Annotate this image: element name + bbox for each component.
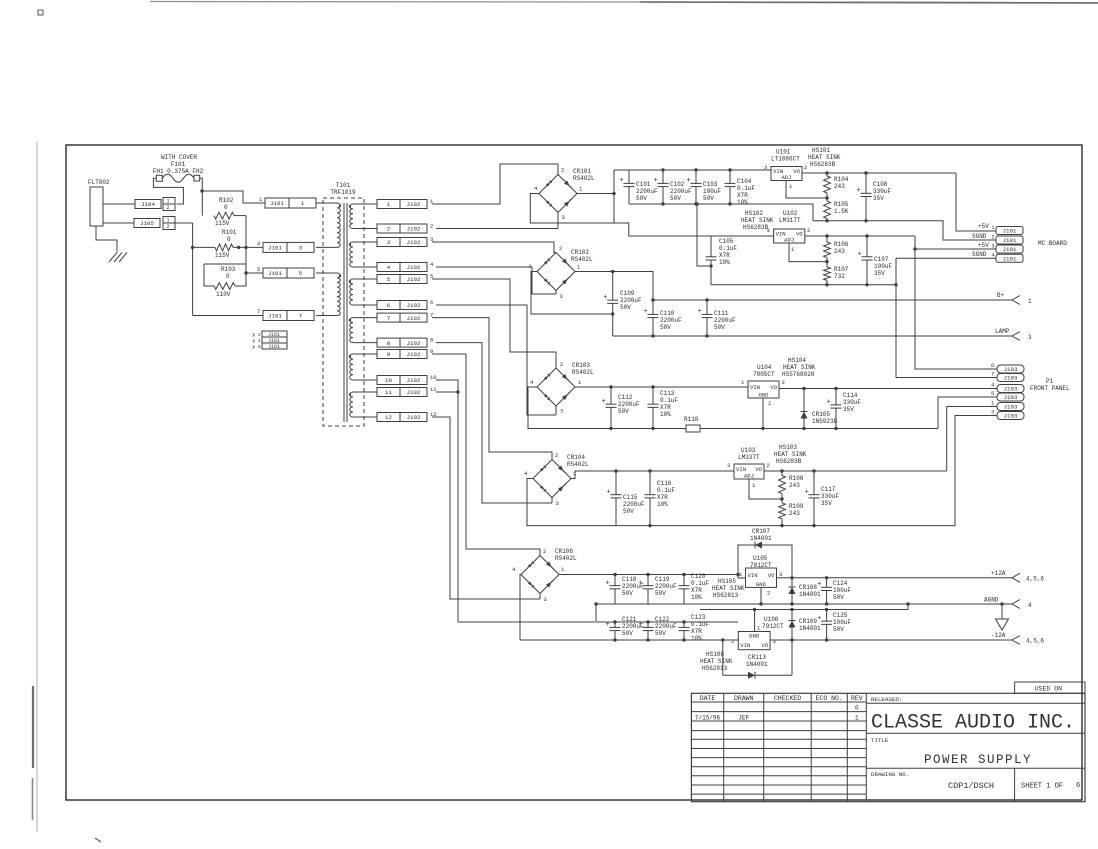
capacitor C113: [648, 387, 679, 429]
svg-text:CHECKED: CHECKED: [774, 695, 801, 702]
svg-text:R109: R109: [789, 503, 804, 510]
wire B+ rail: [651, 298, 1012, 301]
transformer T101 label: [330, 182, 356, 196]
wire J102-4 to CR102 bottom: [436, 267, 556, 294]
svg-text:J101: J101: [268, 270, 282, 277]
svg-text:FRONT PANEL: FRONT PANEL: [1030, 385, 1070, 392]
svg-text:1.5K: 1.5K: [834, 208, 849, 215]
svg-text:P1: P1: [1046, 378, 1054, 385]
svg-text:C118: C118: [622, 576, 637, 583]
svg-text:100uF: 100uF: [833, 587, 851, 594]
wire J102-1 to CR101 top: [432, 164, 558, 204]
svg-text:2: 2: [167, 205, 170, 211]
wire center tap to AGND branch: [458, 621, 595, 623]
svg-text:1: 1: [167, 199, 170, 205]
svg-text:+: +: [827, 399, 831, 407]
wire AGND rail lower: [700, 604, 908, 611]
svg-text:J103: J103: [1004, 366, 1018, 373]
connector J101 pin3: [257, 240, 314, 252]
wire U104 ground pin: [762, 398, 764, 429]
svg-text:330uF: 330uF: [821, 493, 839, 500]
svg-text:50V: 50V: [636, 195, 647, 202]
svg-text:-12A: -12A: [991, 632, 1006, 639]
svg-text:+5V: +5V: [978, 242, 989, 249]
svg-text:3: 3: [727, 462, 730, 469]
node P1 FRONT PANEL label: [1030, 378, 1070, 392]
node R101 left junction: [191, 246, 194, 249]
svg-text:2: 2: [807, 227, 810, 234]
svg-text:R105: R105: [834, 201, 849, 208]
svg-text:U106: U106: [764, 616, 779, 623]
svg-text:50V: 50V: [660, 324, 671, 331]
node output arrow 1: [997, 292, 1032, 305]
wire U103 adj: [749, 479, 784, 501]
svg-text:+: +: [606, 621, 610, 629]
connector J102 pin 8: [377, 337, 433, 348]
capacitor C120: [679, 573, 710, 604]
svg-text:VO: VO: [755, 466, 762, 473]
wire bus B to J101 pin5: [246, 272, 263, 274]
svg-text:J102: J102: [407, 340, 421, 347]
svg-text:2200uF: 2200uF: [660, 317, 682, 324]
svg-text:50V: 50V: [620, 304, 631, 311]
svg-text:VO: VO: [770, 384, 777, 391]
connector J103 pin 4: [991, 382, 1024, 393]
svg-text:C123: C123: [691, 614, 706, 621]
wire FLT802 to ground: [96, 226, 117, 252]
svg-text:5: 5: [257, 266, 260, 273]
svg-text:+5V: +5V: [978, 223, 989, 230]
wire U105 ground pin: [760, 587, 762, 604]
svg-text:2200uF: 2200uF: [714, 317, 736, 324]
svg-text:2: 2: [258, 332, 261, 338]
capacitor C124: [817, 578, 851, 604]
svg-text:RS402L: RS402L: [555, 555, 577, 562]
wire CR102 negative loop: [531, 272, 614, 316]
svg-text:AGND: AGND: [984, 597, 999, 604]
title block USED ON box: [1015, 682, 1085, 693]
wire U104 output rail: [779, 387, 997, 390]
svg-text:+: +: [654, 177, 658, 185]
capacitor C119: [639, 575, 678, 605]
svg-text:0.1uF: 0.1uF: [660, 397, 678, 404]
svg-text:R104: R104: [834, 176, 849, 183]
connector J103 pin 5: [991, 390, 1024, 401]
wire channel4 ground rail: [616, 524, 955, 527]
svg-text:11: 11: [385, 389, 392, 396]
svg-text:330uF: 330uF: [843, 399, 861, 406]
wire CR104 positive to U103: [571, 469, 734, 478]
node HS106 heat sink label: [700, 651, 733, 672]
connector J102 pin 12: [377, 411, 437, 422]
svg-text:+: +: [602, 398, 606, 406]
svg-text:8: 8: [430, 337, 433, 344]
svg-text:0.1uF: 0.1uF: [719, 245, 737, 252]
capacitor C114: [827, 389, 862, 429]
svg-text:10%: 10%: [719, 259, 730, 266]
svg-text:1N4001: 1N4001: [799, 591, 821, 598]
capacitor C105: [706, 236, 738, 285]
wire J102-3 to CR102 top: [432, 242, 556, 253]
capacitor C118: [606, 575, 645, 605]
svg-text:HEAT SINK: HEAT SINK: [741, 217, 774, 224]
svg-text:6: 6: [430, 299, 433, 306]
connector J102 pin 1: [377, 198, 434, 209]
svg-text:115V: 115V: [215, 252, 230, 259]
connector J102 pin 9: [377, 348, 433, 359]
title block DRAWING NO label: [871, 771, 909, 778]
svg-text:10%: 10%: [691, 635, 702, 642]
svg-text:+: +: [620, 177, 624, 185]
svg-text:7: 7: [387, 315, 391, 322]
svg-text:4: 4: [992, 253, 995, 259]
title block title divider: [866, 732, 1085, 734]
svg-text:50V: 50V: [714, 324, 725, 331]
svg-text:GND: GND: [758, 392, 769, 399]
wire FLT802 to J104: [103, 203, 135, 205]
svg-text:50V: 50V: [670, 195, 681, 202]
svg-text:C107: C107: [874, 256, 889, 263]
connector J101 output 2: [972, 233, 1023, 244]
wire unregulated bus vertical: [613, 170, 615, 223]
svg-text:R106: R106: [834, 241, 849, 248]
svg-text:J101: J101: [1003, 255, 1017, 262]
svg-text:X7R: X7R: [657, 494, 668, 501]
wire CR106 negative to -rail: [520, 575, 521, 641]
svg-text:J103: J103: [1004, 413, 1018, 420]
svg-text:+: +: [817, 615, 821, 623]
svg-text:J101: J101: [268, 313, 282, 320]
bridge rectifier CR104: [524, 452, 589, 507]
title block headers: [700, 695, 863, 702]
transformer primary winding 1: [316, 203, 341, 247]
svg-text:C124: C124: [833, 580, 848, 587]
svg-text:50V: 50V: [703, 195, 714, 202]
svg-text:J101: J101: [1003, 246, 1017, 253]
svg-text:J101: J101: [268, 245, 282, 252]
wire FLT802 to J105: [103, 222, 134, 224]
svg-text:1: 1: [387, 201, 391, 208]
wire U101 output rail: [802, 171, 956, 174]
svg-text:HS62813: HS62813: [702, 665, 728, 672]
wire negative rail: [520, 638, 738, 641]
svg-text:VIN: VIN: [748, 572, 758, 579]
svg-text:REV: REV: [851, 695, 863, 702]
capacitor C122: [639, 616, 678, 640]
svg-text:R110: R110: [684, 416, 699, 423]
wire J105 to J101 pin7: [193, 315, 263, 317]
svg-text:POWER SUPPLY: POWER SUPPLY: [924, 753, 1032, 767]
svg-text:CR108: CR108: [799, 584, 817, 591]
svg-text:4,5,6: 4,5,6: [1026, 638, 1044, 645]
svg-text:2200uF: 2200uF: [655, 583, 677, 590]
transformer primary winding 2: [316, 273, 341, 316]
wire J102-5 to CR103 top: [432, 279, 556, 368]
svg-text:35V: 35V: [843, 406, 854, 413]
ground earth symbol: [109, 253, 127, 263]
svg-text:U102: U102: [783, 210, 798, 217]
op-amp U103 regulator LM337T: [727, 444, 807, 489]
svg-text:X7R: X7R: [660, 404, 671, 411]
svg-text:+: +: [639, 621, 643, 629]
svg-text:J102: J102: [407, 226, 421, 233]
connector J102 pin 10: [377, 374, 437, 385]
wire CR102 positive output: [575, 270, 653, 300]
svg-text:C125: C125: [833, 612, 848, 619]
svg-text:C108: C108: [873, 181, 888, 188]
svg-text:+: +: [858, 250, 862, 258]
svg-text:CR109: CR109: [799, 618, 817, 625]
svg-text:VIN: VIN: [750, 384, 760, 391]
title block column lines: [724, 693, 867, 801]
svg-text:100uF: 100uF: [833, 619, 851, 626]
capacitor C112: [602, 387, 641, 429]
svg-text:ECO NO.: ECO NO.: [816, 695, 843, 702]
svg-text:1N4001: 1N4001: [799, 625, 821, 632]
resistor R102: [214, 197, 234, 227]
svg-text:3: 3: [764, 164, 767, 171]
svg-text:+: +: [805, 488, 809, 496]
wire J102-9 to CR106 top: [432, 354, 540, 556]
svg-text:HEAT SINK: HEAT SINK: [783, 364, 816, 371]
connector J101 output 3: [978, 242, 1023, 253]
svg-text:3: 3: [562, 214, 565, 221]
wire +5V2 to J101 and J103: [913, 236, 997, 369]
svg-text:1: 1: [167, 218, 170, 224]
svg-text:C112: C112: [618, 394, 633, 401]
svg-text:3: 3: [779, 571, 782, 578]
capacitor C115: [607, 471, 646, 526]
svg-text:115V: 115V: [215, 220, 230, 227]
wire U103 output rail: [764, 469, 947, 472]
transformer secondary winding 5: [349, 354, 377, 380]
svg-text:C102: C102: [670, 181, 685, 188]
node R101 right junction: [237, 246, 248, 249]
svg-text:4: 4: [1028, 602, 1032, 609]
svg-text:7805CT: 7805CT: [753, 371, 775, 378]
svg-text:50V: 50V: [833, 626, 844, 633]
svg-text:J102: J102: [407, 389, 421, 396]
wire -5V to J103: [947, 407, 997, 472]
connector J101 pin1: [259, 196, 316, 208]
svg-text:HS103: HS103: [779, 444, 797, 451]
line filter FLT802: [88, 179, 110, 226]
svg-text:LM337T: LM337T: [738, 454, 760, 461]
svg-text:J101: J101: [1003, 228, 1017, 235]
connector J104: [135, 198, 175, 212]
svg-text:RS402L: RS402L: [572, 369, 594, 376]
svg-text:HS6283B: HS6283B: [743, 224, 769, 231]
svg-text:HS106: HS106: [706, 651, 724, 658]
svg-text:HS105: HS105: [718, 578, 736, 585]
node output arrow AGND: [984, 597, 1032, 610]
svg-text:J103: J103: [1004, 386, 1018, 393]
svg-text:+: +: [644, 308, 648, 316]
svg-text:C110: C110: [660, 310, 675, 317]
capacitor C107: [858, 236, 893, 285]
svg-text:3: 3: [1028, 334, 1032, 341]
svg-text:243: 243: [834, 183, 845, 190]
svg-text:3: 3: [767, 227, 770, 234]
svg-text:ADJ: ADJ: [784, 237, 794, 244]
svg-text:HEAT SINK: HEAT SINK: [774, 451, 807, 458]
wire J102-6 to CR103 bottom: [436, 305, 556, 415]
wire AGND rail: [596, 602, 1012, 605]
wire channel2 ground rail: [613, 334, 1012, 337]
svg-text:4: 4: [387, 264, 391, 271]
svg-text:50V: 50V: [655, 590, 666, 597]
connector J103 pin 3: [991, 409, 1024, 420]
connector J102 pin 2: [377, 223, 433, 234]
resistor R103: [204, 264, 246, 298]
svg-text:J104: J104: [141, 201, 155, 208]
svg-text:C116: C116: [657, 480, 672, 487]
transformer secondary winding 6: [349, 392, 377, 417]
svg-text:CR113: CR113: [748, 654, 766, 661]
svg-text:50V: 50V: [655, 630, 666, 637]
wire J102-12 to CR106 bottom: [432, 417, 540, 599]
svg-text:C122: C122: [655, 616, 670, 623]
svg-text:CR103: CR103: [572, 362, 590, 369]
svg-text:7812CT: 7812CT: [750, 562, 772, 569]
capacitor C109: [603, 272, 642, 337]
svg-text:2: 2: [555, 452, 558, 459]
svg-text:10%: 10%: [660, 411, 671, 418]
resistor R109: [779, 499, 804, 526]
svg-text:CR104: CR104: [567, 454, 585, 461]
svg-text:CDP1/DSCH: CDP1/DSCH: [948, 781, 994, 791]
svg-text:CR102: CR102: [571, 249, 589, 256]
svg-text:LAMP: LAMP: [995, 328, 1010, 335]
page border frame: [66, 145, 1082, 800]
svg-text:HS62813: HS62813: [713, 592, 739, 599]
svg-text:1N4001: 1N4001: [750, 535, 772, 542]
title block released label: [866, 696, 1085, 703]
wire SGND rail: [813, 219, 996, 240]
svg-text:3: 3: [773, 638, 776, 645]
bridge rectifier CR106: [512, 548, 577, 603]
svg-text:C121: C121: [622, 616, 637, 623]
svg-text:J101: J101: [1003, 237, 1017, 244]
resistor R105: [824, 198, 849, 221]
connector J101 pin7: [257, 308, 314, 321]
svg-text:0.1uF: 0.1uF: [657, 487, 675, 494]
wire +5V to J101: [956, 173, 996, 231]
svg-text:HEAT SINK: HEAT SINK: [700, 658, 733, 665]
svg-text:J102: J102: [407, 276, 421, 283]
svg-text:VIN: VIN: [740, 642, 750, 649]
wire CR103 positive rail: [575, 385, 748, 388]
svg-text:C120: C120: [691, 573, 706, 580]
svg-text:RS402L: RS402L: [573, 175, 595, 182]
title block outline: [691, 693, 1085, 801]
svg-text:+12A: +12A: [991, 570, 1006, 577]
svg-text:HS104: HS104: [788, 357, 806, 364]
diode CR109 1N4001: [789, 610, 822, 641]
capacitor C116: [645, 471, 676, 526]
svg-text:+: +: [639, 579, 643, 587]
svg-text:MC BOARD: MC BOARD: [1038, 240, 1067, 247]
svg-text:C111: C111: [714, 310, 729, 317]
title block sheet number: [1021, 782, 1080, 791]
svg-text:J103: J103: [1004, 404, 1018, 411]
svg-text:7/15/96: 7/15/96: [695, 715, 721, 722]
svg-text:1: 1: [992, 225, 995, 231]
svg-text:10: 10: [430, 374, 437, 381]
svg-text:2200uF: 2200uF: [623, 501, 645, 508]
connector J102 pin 4: [377, 261, 434, 272]
svg-text:C115: C115: [623, 494, 638, 501]
svg-text:0: 0: [224, 204, 228, 211]
wire CR106 positive rail: [559, 573, 746, 578]
svg-text:0.1uF: 0.1uF: [691, 580, 709, 587]
svg-text:2: 2: [387, 226, 391, 233]
svg-text:R102: R102: [219, 197, 234, 204]
title block TITLE label: [871, 737, 889, 744]
diode CR108 1N4001: [789, 578, 822, 604]
svg-text:X7R: X7R: [691, 628, 702, 635]
svg-text:+: +: [857, 187, 861, 195]
svg-text:J102: J102: [407, 351, 421, 358]
svg-text:3: 3: [560, 408, 563, 415]
svg-text:7: 7: [299, 313, 303, 320]
wire channel1 top rail: [614, 169, 771, 171]
wire -5Vgnd to J103: [955, 416, 997, 526]
connector J103 pin 1: [991, 400, 1024, 411]
svg-text:3: 3: [991, 409, 994, 416]
title block drawing number: [948, 781, 994, 791]
svg-text:50V: 50V: [622, 590, 633, 597]
connector J102 pin 6: [377, 299, 433, 310]
wire bus B vertical: [245, 216, 247, 273]
capacitor C117: [805, 471, 840, 526]
svg-text:HS6283B: HS6283B: [810, 161, 836, 168]
svg-text:GND: GND: [756, 581, 767, 588]
connector J103 pin 7: [991, 371, 1024, 382]
svg-text:3: 3: [560, 293, 563, 300]
svg-text:C117: C117: [821, 486, 836, 493]
svg-text:7: 7: [991, 371, 994, 378]
capacitor C111: [698, 300, 737, 336]
svg-text:0: 0: [227, 236, 231, 243]
svg-text:50V: 50V: [618, 408, 629, 415]
wire 5Vgnd to J103: [938, 397, 997, 429]
svg-text:J103: J103: [1004, 394, 1018, 401]
svg-text:U104: U104: [757, 364, 772, 371]
svg-text:TRF1019: TRF1019: [330, 189, 356, 196]
transformer secondary winding 2: [349, 242, 377, 267]
svg-text:35V: 35V: [874, 270, 885, 277]
svg-text:RS402L: RS402L: [571, 256, 593, 263]
svg-text:C101: C101: [636, 181, 651, 188]
node A junction: [200, 189, 203, 192]
svg-text:C119: C119: [655, 576, 670, 583]
svg-text:7912CT: 7912CT: [762, 623, 784, 630]
svg-text:0: 0: [226, 273, 230, 280]
scan top edge streak: [150, 2, 1098, 4]
svg-text:CR101: CR101: [573, 168, 591, 175]
svg-text:2: 2: [559, 245, 562, 252]
transformer secondary winding 4: [349, 318, 377, 343]
svg-text:R108: R108: [789, 475, 804, 482]
svg-text:2200uF: 2200uF: [618, 401, 640, 408]
svg-text:+: +: [817, 581, 821, 589]
svg-text:35V: 35V: [873, 195, 884, 202]
wire U102 adj: [789, 243, 829, 263]
svg-text:2: 2: [767, 590, 770, 597]
svg-text:C109: C109: [620, 290, 635, 297]
wire J102-2 to CR101 bottom: [436, 213, 558, 229]
